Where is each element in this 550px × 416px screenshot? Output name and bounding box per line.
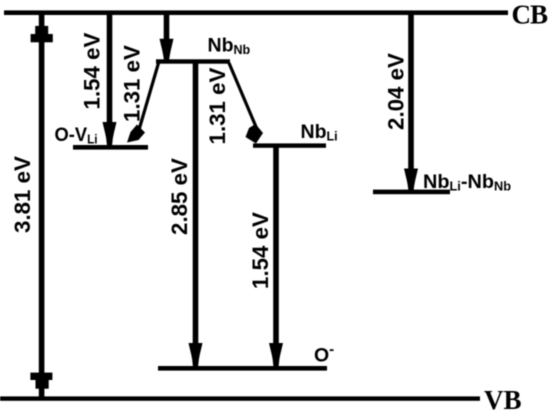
svg-text:3.81 eV: 3.81 eV [10, 156, 35, 233]
svg-text:2.04 eV: 2.04 eV [384, 53, 409, 130]
arrow 1.54 eV right head [269, 343, 283, 367]
arrow 1.54 eV (CB to O-V_Li) shaft [107, 13, 113, 125]
arrow CB to Nb_Nb shaft [164, 13, 170, 41]
arrow CB to Nb_Nb head [160, 39, 174, 61]
svg-text:CB: CB [512, 0, 548, 30]
level Nb_Li [253, 143, 326, 147]
svg-text:1.31 eV: 1.31 eV [120, 45, 145, 122]
level O- [158, 366, 327, 371]
arrow 2.04 eV head [404, 169, 418, 192]
svg-text:1.54 eV: 1.54 eV [80, 32, 105, 109]
diagonal arrow 1.31 eV (Nb_Nb to Nb_Li) line [229, 63, 257, 128]
diagonal arrow 1.31 eV (Nb_Nb to O-V_Li) line [140, 63, 159, 128]
double arrow 3.81 eV up head [35, 26, 48, 34]
svg-text:1.31 eV: 1.31 eV [205, 67, 230, 144]
arrow 1.54 eV head [103, 122, 117, 146]
svg-text:1.54 eV: 1.54 eV [248, 212, 273, 289]
arrow 1.54 eV (Nb_Li to O-) shaft [273, 146, 279, 346]
VB band line [0, 396, 480, 400]
CB band line [4, 10, 508, 15]
diagonal arrow 1.31 eV head [127, 125, 145, 143]
level O-V_Li [73, 145, 148, 150]
arrow 2.04 eV (CB to Nb_Li-Nb_Nb) shaft [408, 13, 414, 171]
svg-text:2.85 eV: 2.85 eV [167, 158, 192, 235]
double arrow 3.81 eV down head [30, 373, 52, 380]
level Nb_Li-Nb_Nb [373, 190, 450, 195]
double arrow 3.81 eV shaft [39, 13, 45, 398]
diagonal arrow 1.31 eV right head [246, 124, 264, 144]
arrow 2.85 eV (Nb_Nb to O-) shaft [193, 63, 199, 346]
svg-text:VB: VB [484, 385, 522, 415]
level Nb_Nb [156, 59, 230, 63]
arrow 2.85 eV head [189, 343, 203, 367]
